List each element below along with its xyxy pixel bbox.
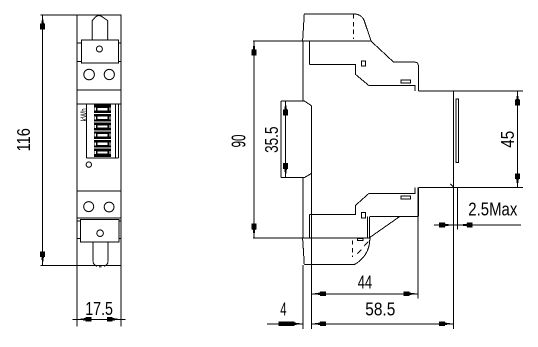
svg-text:58.5: 58.5 <box>365 300 395 320</box>
svg-text:17.5: 17.5 <box>85 299 113 319</box>
svg-text:35.5: 35.5 <box>262 127 282 153</box>
svg-text:44: 44 <box>358 273 373 293</box>
svg-text:4: 4 <box>280 300 286 320</box>
svg-text:116: 116 <box>14 128 34 151</box>
svg-text:45: 45 <box>498 131 518 148</box>
svg-text:2.5Max: 2.5Max <box>468 200 517 220</box>
svg-text:kWh: kWh <box>79 108 89 121</box>
svg-text:90: 90 <box>228 135 250 148</box>
